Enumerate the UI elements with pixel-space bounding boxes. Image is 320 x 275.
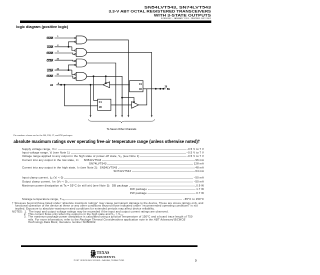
overline LEBA: [47, 68, 53, 70]
junction A1 bus branch: [90, 84, 92, 86]
overline LEAB: [47, 45, 53, 47]
svg-text:OEBA: OEBA: [47, 75, 54, 78]
overline CEBA: [47, 58, 53, 60]
svg-text:CEAB: CEAB: [47, 37, 54, 40]
bubble buffer U3 EN: [105, 82, 106, 83]
wire G3 out: [87, 63, 116, 115]
TI symbol: [91, 250, 96, 257]
bubble G1 in1: [75, 37, 77, 39]
bubble G2 in1: [75, 50, 77, 52]
svg-text:C1: C1: [139, 84, 143, 86]
wire A1 to latch U1 1D: [65, 85, 98, 106]
LOGIC DIAGRAM SVG: [0, 0, 213, 275]
overline OEAB: [47, 51, 53, 53]
junction G4 EN branch: [105, 75, 107, 77]
junction LEAB: [68, 46, 70, 48]
and-gate G4: [76, 72, 86, 80]
latch U1 (A to B): [98, 99, 111, 110]
abs max heading: [14, 139, 201, 144]
wire latch U1 out to buffer U4: [111, 104, 132, 106]
wire EN to buffer U3: [105, 76, 107, 82]
wire G2 out: [87, 52, 152, 115]
arrow G1 bus: [128, 115, 130, 117]
wire G4 to latch U1 C1: [94, 76, 98, 100]
bubble G4 in2: [75, 77, 77, 79]
svg-text:OEAB: OEAB: [47, 52, 54, 55]
wire B1: [143, 88, 166, 90]
wire OEBA to G4: [55, 76, 75, 78]
dagger + notes: [12, 202, 203, 205]
wire EN to buffer U4: [122, 98, 134, 102]
ratings rows: [22, 147, 204, 151]
svg-text:A1: A1: [50, 84, 54, 87]
arrow G3 bus: [115, 115, 117, 117]
arrow G2 bus: [151, 115, 153, 117]
junction B1 bus: [159, 88, 161, 90]
wire CEBA to G3: [55, 59, 75, 62]
svg-text:B1: B1: [167, 89, 171, 91]
wire LEBA down to G4: [72, 70, 75, 74]
svg-text:4: 4: [58, 82, 60, 85]
wire A1: [56, 84, 102, 86]
bubble G2 in2: [75, 54, 77, 56]
junction A1 buffer node: [60, 84, 62, 86]
latch U2 (B to A): [130, 81, 144, 92]
wire latch U2 out to buffer U3: [110, 84, 130, 86]
bubble buffer U4 EN: [133, 101, 134, 102]
bubble G4 in1: [75, 74, 77, 76]
svg-text:To Seven Other Channels: To Seven Other Channels: [107, 127, 137, 131]
buffer U3 (B to A): [103, 82, 110, 88]
arrow G4 bus: [121, 115, 123, 117]
wire LEBA up to G3: [69, 65, 75, 70]
wire CEAB to G1: [55, 37, 75, 39]
wire LEAB up to G1: [69, 42, 75, 47]
section heading: logic diagram: [16, 25, 68, 29]
wire LEAB trunk: [55, 46, 72, 48]
overline OEBA: [47, 74, 53, 76]
bubble G1 in2: [75, 41, 77, 43]
overline CEAB: [47, 36, 53, 38]
svg-text:1D: 1D: [99, 107, 102, 109]
wire buffer U4 out riser to B1: [139, 89, 147, 105]
wire A bus down: [90, 85, 92, 116]
TI logo block: [0, 247, 213, 275]
wire OEAB to G2: [55, 53, 75, 54]
svg-text:CEBA: CEBA: [47, 59, 54, 62]
arrow A bus: [90, 115, 92, 117]
svg-text:POST OFFICE BOX 655303 • DALLA: POST OFFICE BOX 655303 • DALLAS, TEXAS 7…: [74, 259, 125, 262]
wire G4 out: [87, 76, 123, 115]
svg-text:C1: C1: [99, 102, 103, 104]
junction B1 riser: [155, 88, 157, 90]
bottom rule: [21, 245, 198, 247]
svg-text:INSTRUMENTS: INSTRUMENTS: [91, 255, 116, 259]
junction A1 latch branch: [64, 84, 66, 86]
junction LEBA: [68, 69, 70, 71]
wire G1 out: [87, 40, 129, 116]
junction G4 buffer U4 branch: [121, 97, 123, 99]
top rule: [20, 21, 211, 24]
header right block: [144, 5, 211, 9]
and-gate G2: [76, 48, 86, 56]
pin note under diagram: [14, 134, 73, 137]
wire LEBA trunk: [55, 69, 72, 71]
bubble G3 in2: [75, 64, 77, 66]
svg-text:LEBA: LEBA: [47, 69, 54, 72]
bubble G3 in1: [75, 60, 77, 62]
brace to other channels: [88, 119, 154, 123]
and-gate G3: [76, 59, 86, 67]
page number: [195, 259, 197, 262]
and-gate G1: [76, 36, 86, 44]
svg-text:1D: 1D: [139, 89, 142, 91]
junction B1 pin: [162, 88, 164, 90]
buffer U4 (A to B): [132, 102, 139, 109]
junction G4 latch branch: [93, 75, 95, 77]
wire LEAB down to G2: [72, 47, 75, 51]
svg-text:LEAB: LEAB: [47, 46, 54, 49]
